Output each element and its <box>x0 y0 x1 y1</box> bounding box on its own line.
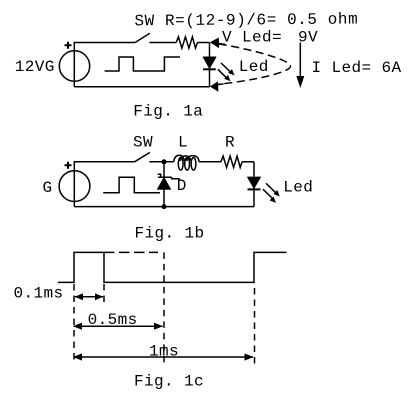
diode D wire <box>163 162 165 207</box>
wire right vertical Fig1a <box>209 43 211 87</box>
svg-text:D: D <box>177 177 187 195</box>
LED light arrow 2 Fig1b <box>263 189 272 198</box>
dashed marker line left <box>73 284 75 364</box>
diode D schottky cathode bar <box>158 174 180 179</box>
pulse waveform Fig1a <box>105 57 180 71</box>
wire right vertical Fig1b <box>253 162 255 207</box>
dashed marker line 1ms <box>254 288 256 364</box>
source G1 circle Fig1a <box>59 51 89 81</box>
svg-text:Led: Led <box>283 178 313 196</box>
dashed line pulse top extension <box>104 251 158 253</box>
svg-text:Fig. 1a: Fig. 1a <box>133 103 203 121</box>
source G circle Fig1b <box>59 171 90 202</box>
dimension arrow 0.5ms <box>74 325 163 327</box>
switch SW Fig1a blade <box>135 33 150 42</box>
svg-text:Led: Led <box>239 58 269 76</box>
wire resistor to corner <box>242 161 254 163</box>
callout arrow to anode node <box>210 38 219 49</box>
svg-text:SW R=(12-9)/6= 0.5 ohm: SW R=(12-9)/6= 0.5 ohm <box>134 10 358 30</box>
callout balloon dashed Fig1a <box>219 44 291 84</box>
svg-text:G: G <box>43 179 53 197</box>
svg-text:I Led= 6A: I Led= 6A <box>312 59 402 77</box>
wire switch to node <box>149 161 173 163</box>
plus sign Fig1a <box>65 42 72 49</box>
LED D1 cathode bar Fig1a <box>203 68 216 70</box>
wire top-left Fig1a <box>74 43 135 87</box>
wire bottom Fig1a <box>74 86 209 88</box>
current arrow I Led <box>299 43 301 79</box>
diode D triangle <box>158 178 171 189</box>
wire coil to resistor <box>199 161 221 163</box>
svg-text:SW: SW <box>133 134 153 152</box>
svg-text:R: R <box>225 134 235 152</box>
switch SW Fig1b blade <box>135 152 150 161</box>
junction node top Fig1b <box>162 159 167 164</box>
callout arrow to cathode node <box>210 81 219 92</box>
pulse waveform Fig1b <box>103 177 160 192</box>
plus sign Fig1b <box>65 162 72 169</box>
dimension arrow 0.1ms <box>75 296 103 298</box>
LED light arrow 1 Fig1a <box>221 63 231 73</box>
svg-text:Fig. 1b: Fig. 1b <box>135 224 205 242</box>
svg-text:1ms: 1ms <box>149 342 179 360</box>
LED D2 triangle Fig1b <box>248 177 261 188</box>
resistor R Fig1b <box>221 156 242 167</box>
LED light arrow 1 Fig1b <box>266 183 276 193</box>
resistor R Fig1a <box>176 37 197 48</box>
LED D1 triangle Fig1a <box>203 57 216 68</box>
waveform Fig1c <box>58 252 287 282</box>
dimension arrow 1ms <box>74 356 254 358</box>
svg-text:L: L <box>178 134 188 152</box>
LED D2 cathode bar Fig1b <box>248 188 261 190</box>
svg-text:12VG: 12VG <box>15 58 55 76</box>
dashed marker line 0.5ms <box>163 252 165 363</box>
wire bottom Fig1b <box>74 206 254 208</box>
svg-text:0.1ms: 0.1ms <box>14 285 64 303</box>
LED light arrow 2 Fig1a <box>218 69 227 78</box>
junction node bottom Fig1b <box>162 204 167 209</box>
dashed marker line pulse end <box>103 284 105 303</box>
inductor L coil <box>178 158 183 171</box>
wire top-left Fig1b <box>74 162 134 207</box>
wire switch to resistor <box>150 42 177 44</box>
svg-text:V Led=: V Led= <box>222 29 282 47</box>
svg-text:Fig. 1c: Fig. 1c <box>134 373 204 391</box>
svg-text:0.5ms: 0.5ms <box>88 311 138 329</box>
wire resistor to corner <box>197 42 209 44</box>
